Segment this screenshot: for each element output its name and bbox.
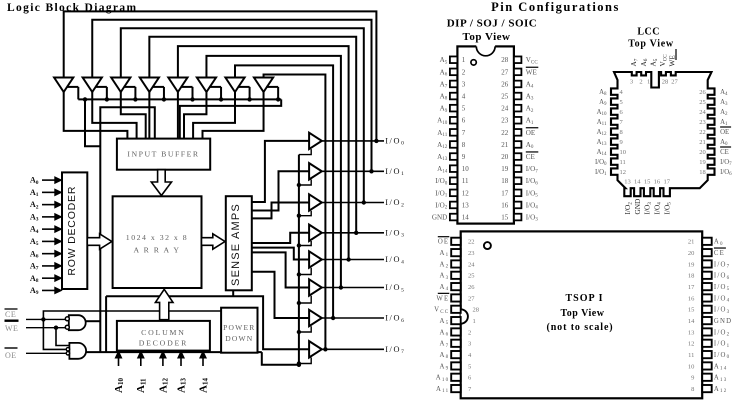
svg-text:15: 15 (688, 307, 695, 314)
svg-text:15: 15 (644, 179, 651, 186)
svg-text:GND: GND (714, 318, 732, 325)
svg-text:8: 8 (691, 386, 694, 393)
svg-text:OE: OE (5, 351, 17, 360)
svg-text:16: 16 (688, 295, 695, 302)
svg-text:3: 3 (630, 79, 633, 86)
svg-text:25: 25 (468, 273, 475, 280)
svg-text:1: 1 (647, 79, 650, 86)
svg-text:19: 19 (699, 159, 706, 166)
svg-text:8: 8 (462, 141, 466, 149)
svg-text:11: 11 (688, 352, 694, 359)
svg-text:21: 21 (501, 141, 509, 149)
svg-text:GND: GND (633, 199, 642, 215)
svg-text:27: 27 (671, 79, 678, 86)
svg-text:24: 24 (501, 105, 509, 113)
svg-text:9: 9 (620, 139, 623, 146)
svg-text:TSOP I: TSOP I (566, 293, 604, 304)
svg-text:DIP / SOJ / SOIC: DIP / SOJ / SOIC (447, 18, 538, 30)
svg-text:WE: WE (526, 68, 537, 76)
svg-text:23: 23 (501, 117, 509, 125)
svg-text:17: 17 (663, 179, 670, 186)
svg-text:2: 2 (462, 68, 466, 76)
svg-text:27: 27 (501, 68, 509, 76)
svg-text:CE: CE (526, 153, 535, 161)
svg-text:5: 5 (462, 105, 466, 113)
svg-text:DECODER: DECODER (139, 338, 188, 347)
svg-text:14: 14 (462, 213, 470, 221)
svg-text:8: 8 (620, 129, 623, 136)
svg-text:CE: CE (714, 250, 725, 257)
svg-text:21: 21 (688, 239, 695, 246)
svg-text:25: 25 (501, 92, 509, 100)
svg-text:22: 22 (699, 129, 706, 136)
svg-text:25: 25 (699, 99, 706, 106)
svg-text:9: 9 (462, 153, 466, 161)
svg-text:4: 4 (462, 92, 466, 100)
svg-text:INPUT BUFFER: INPUT BUFFER (127, 150, 199, 159)
svg-text:18: 18 (699, 169, 706, 176)
svg-text:1: 1 (473, 318, 476, 325)
svg-text:18: 18 (688, 273, 695, 280)
svg-text:24: 24 (699, 109, 706, 116)
svg-text:16: 16 (501, 201, 509, 209)
svg-text:26: 26 (468, 284, 475, 291)
svg-text:POWER: POWER (223, 323, 255, 332)
svg-text:17: 17 (501, 189, 509, 197)
svg-text:24: 24 (468, 261, 475, 268)
svg-text:OE: OE (720, 129, 729, 136)
svg-text:3: 3 (462, 80, 466, 88)
svg-text:13: 13 (462, 201, 470, 209)
svg-text:13: 13 (624, 179, 631, 186)
svg-text:28: 28 (662, 79, 669, 86)
svg-text:28: 28 (501, 56, 509, 64)
svg-text:WE: WE (668, 55, 677, 67)
svg-text:Pin Configurations: Pin Configurations (491, 0, 620, 14)
svg-text:20: 20 (688, 250, 695, 257)
svg-text:WE: WE (5, 324, 18, 333)
svg-text:16: 16 (654, 179, 661, 186)
svg-text:27: 27 (468, 295, 475, 302)
svg-text:11: 11 (462, 177, 469, 185)
svg-text:5: 5 (468, 363, 471, 370)
svg-text:10: 10 (688, 363, 695, 370)
svg-text:11: 11 (620, 159, 626, 166)
svg-text:OE: OE (526, 129, 535, 137)
svg-text:A R R A Y: A R R A Y (133, 245, 180, 254)
svg-text:LCC: LCC (637, 27, 660, 38)
svg-text:23: 23 (468, 250, 475, 257)
svg-text:10: 10 (462, 165, 470, 173)
svg-text:15: 15 (501, 213, 509, 221)
svg-text:COLUMN: COLUMN (141, 328, 186, 337)
svg-text:12: 12 (688, 341, 695, 348)
svg-text:12: 12 (462, 189, 470, 197)
svg-text:14: 14 (634, 179, 641, 186)
svg-text:12: 12 (620, 169, 627, 176)
svg-text:1024 x 32 x 8: 1024 x 32 x 8 (126, 233, 188, 242)
svg-text:22: 22 (468, 239, 475, 246)
svg-text:18: 18 (501, 177, 509, 185)
svg-text:GND: GND (432, 213, 447, 221)
svg-text:3: 3 (468, 341, 471, 348)
svg-text:CE: CE (720, 149, 729, 156)
svg-text:28: 28 (473, 307, 480, 314)
svg-text:CE: CE (5, 310, 16, 319)
svg-text:OE: OE (438, 239, 449, 246)
svg-text:13: 13 (688, 329, 695, 336)
svg-text:22: 22 (501, 129, 509, 137)
svg-text:21: 21 (699, 139, 706, 146)
svg-text:6: 6 (462, 117, 466, 125)
svg-text:23: 23 (699, 119, 706, 126)
svg-text:14: 14 (688, 318, 695, 325)
svg-text:(not to scale): (not to scale) (546, 322, 613, 333)
svg-text:20: 20 (699, 149, 706, 156)
svg-text:10: 10 (620, 149, 627, 156)
svg-text:SENSE AMPS: SENSE AMPS (230, 203, 242, 286)
svg-text:2: 2 (639, 79, 642, 86)
svg-text:1: 1 (462, 56, 466, 64)
svg-text:17: 17 (688, 284, 695, 291)
svg-text:ROW DECODER: ROW DECODER (66, 186, 78, 276)
svg-text:Top View: Top View (628, 39, 674, 50)
svg-text:7: 7 (462, 129, 466, 137)
svg-text:20: 20 (501, 153, 509, 161)
svg-text:Top View: Top View (561, 308, 605, 319)
svg-text:9: 9 (691, 375, 694, 382)
svg-text:DOWN: DOWN (225, 334, 253, 343)
svg-text:2: 2 (468, 329, 471, 336)
svg-text:19: 19 (688, 261, 695, 268)
svg-text:26: 26 (501, 80, 509, 88)
svg-text:5: 5 (620, 99, 623, 106)
svg-text:Top View: Top View (463, 31, 511, 43)
svg-text:WE: WE (436, 295, 449, 302)
svg-text:19: 19 (501, 165, 509, 173)
svg-text:26: 26 (699, 89, 706, 96)
